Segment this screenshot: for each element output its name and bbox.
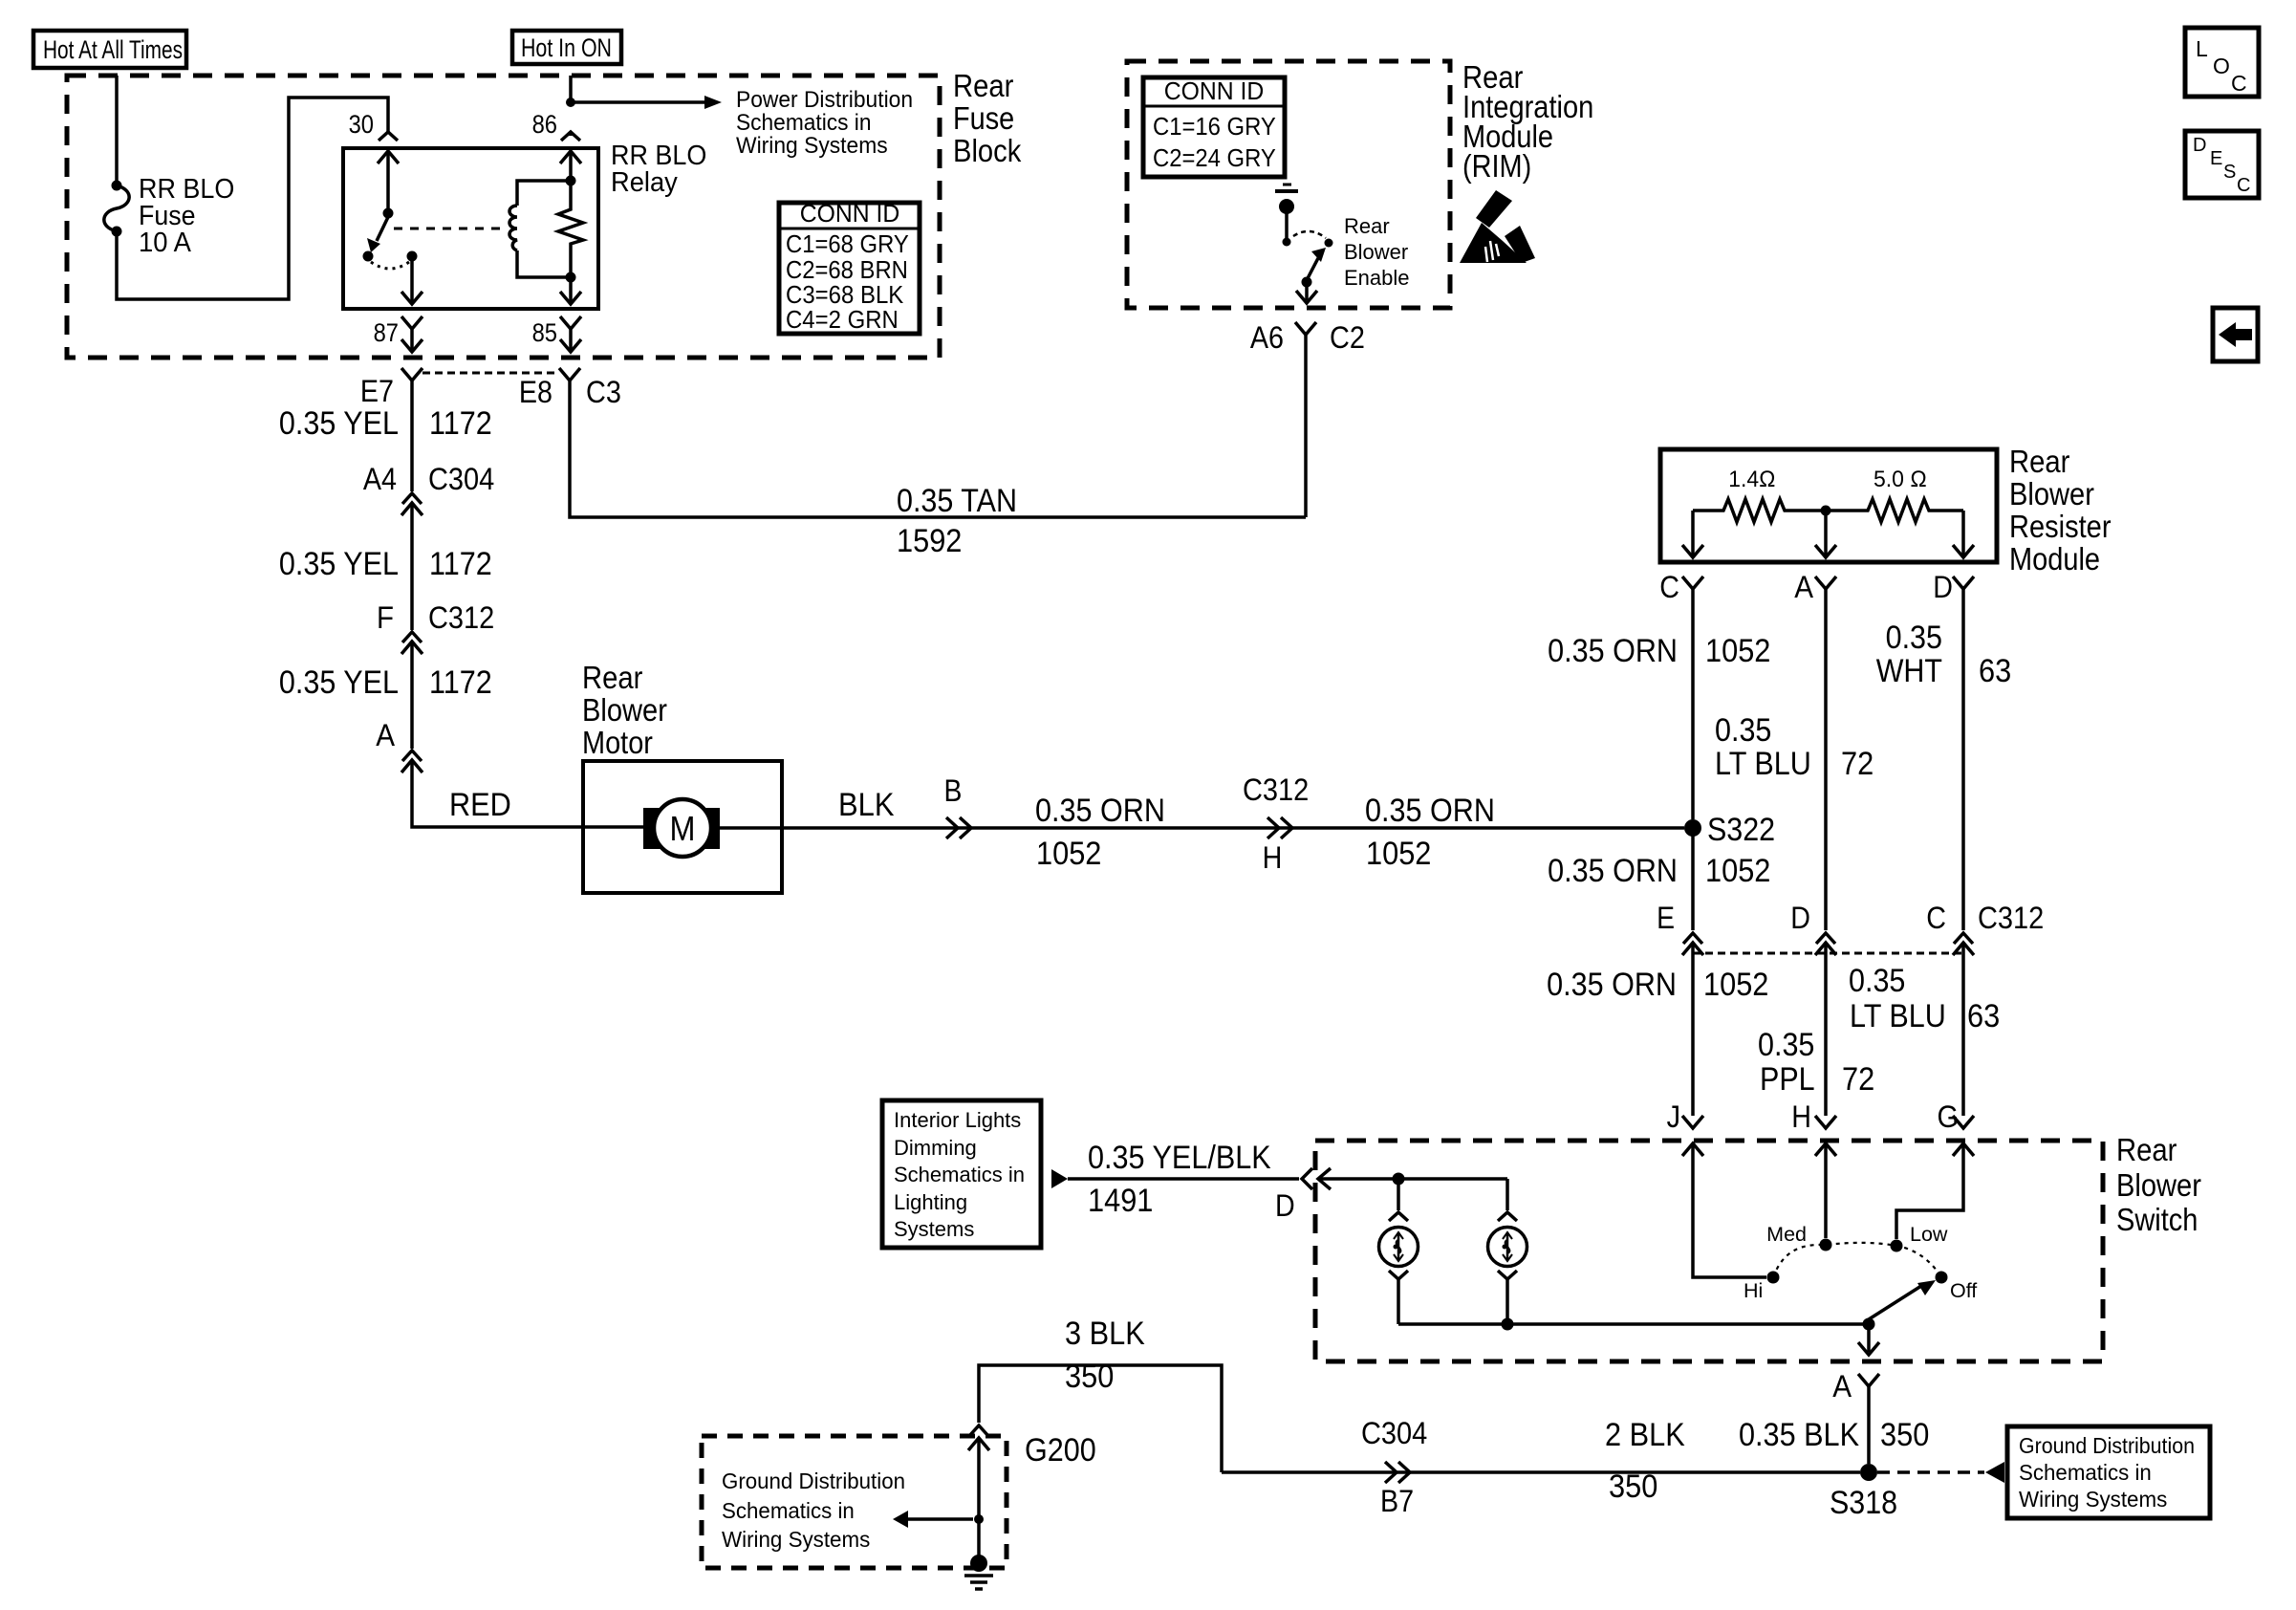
svg-text:1.4Ω: 1.4Ω — [1728, 467, 1775, 492]
svg-text:A4: A4 — [363, 462, 397, 496]
svg-text:A6: A6 — [1250, 320, 1284, 355]
connector A6 C2 — [1250, 320, 1365, 517]
svg-text:Blower: Blower — [582, 692, 667, 728]
label: 0.35 ORN 1052 (pin C) — [1548, 633, 1770, 669]
svg-text:Enable: Enable — [1344, 266, 1410, 290]
svg-text:86: 86 — [532, 110, 557, 139]
svg-text:Schematics in: Schematics in — [722, 1498, 855, 1523]
power label box: Hot In ON — [512, 31, 621, 64]
wire J to Hi — [1693, 1143, 1766, 1277]
svg-text:72: 72 — [1841, 746, 1874, 782]
svg-text:C312: C312 — [1243, 772, 1309, 807]
svg-text:0.35 ORN: 0.35 ORN — [1548, 633, 1678, 669]
connector pins C A D — [1659, 570, 1974, 604]
switch contact Off — [1936, 1272, 1978, 1303]
svg-text:Wiring Systems: Wiring Systems — [2019, 1487, 2167, 1512]
wire 3 BLK 350 — [979, 1365, 1222, 1472]
arrow to ground schematics — [893, 1511, 973, 1528]
label: 0.35 YEL 1172 (2) — [279, 546, 492, 582]
wire E7 down — [410, 381, 414, 491]
splice S318 — [1830, 1464, 1897, 1521]
svg-text:Rear: Rear — [1344, 214, 1390, 238]
RIM CONN ID table — [1143, 76, 1285, 177]
svg-text:Rear: Rear — [953, 68, 1013, 103]
svg-text:RED: RED — [449, 787, 511, 823]
Rear Blower Switch dashed enclosure — [1315, 1141, 2103, 1361]
ground symbol G200 — [964, 1555, 993, 1589]
svg-text:1491: 1491 — [1088, 1183, 1153, 1219]
svg-text:L: L — [2196, 36, 2208, 61]
switch output arrow — [1858, 1324, 1879, 1355]
svg-text:Blower: Blower — [1344, 240, 1408, 264]
svg-text:D: D — [2193, 135, 2206, 156]
relay contact dotted arc — [371, 262, 409, 269]
relay pin 87 — [374, 261, 422, 352]
wire D into switch box — [1318, 1168, 1507, 1189]
svg-text:H: H — [1791, 1099, 1811, 1134]
ESD sensitive symbol — [1460, 190, 1535, 263]
svg-text:C1=16 GRY: C1=16 GRY — [1153, 112, 1276, 141]
label: 0.35 ORN 1052 (to J) — [1547, 967, 1768, 1003]
svg-text:C4=2 GRN: C4=2 GRN — [786, 305, 899, 334]
svg-text:Hi: Hi — [1744, 1279, 1763, 1302]
component name: Rear Blower Motor — [582, 660, 667, 760]
component name: Rear Blower Resister Module — [2009, 444, 2112, 577]
svg-text:D: D — [1275, 1188, 1295, 1223]
svg-text:C1=68 GRY: C1=68 GRY — [786, 229, 909, 258]
svg-text:350: 350 — [1065, 1359, 1114, 1395]
svg-text:B: B — [944, 773, 963, 808]
svg-text:Switch: Switch — [2116, 1202, 2198, 1237]
svg-text:BLK: BLK — [838, 787, 895, 823]
svg-text:Rear: Rear — [582, 660, 642, 695]
wire motor to S322 — [720, 826, 1684, 830]
svg-text:0.35 ORN: 0.35 ORN — [1035, 793, 1165, 829]
svg-text:Lighting: Lighting — [894, 1190, 967, 1214]
svg-text:C3: C3 — [586, 375, 621, 409]
svg-text:3 BLK: 3 BLK — [1065, 1316, 1145, 1352]
svg-text:D: D — [1933, 570, 1953, 604]
wire S322 down — [1691, 828, 1695, 930]
arrow to ground distribution (right) — [1985, 1462, 2004, 1483]
svg-text:C2: C2 — [1330, 320, 1365, 355]
svg-text:Blower: Blower — [2116, 1167, 2201, 1203]
svg-text:0.35 YEL: 0.35 YEL — [279, 664, 399, 701]
connector A4 C304 — [363, 462, 494, 630]
wire into motor — [583, 825, 643, 829]
svg-text:87: 87 — [374, 318, 399, 347]
svg-text:Block: Block — [953, 133, 1022, 168]
svg-text:Hot In ON: Hot In ON — [521, 33, 612, 62]
wire from fuse to relay pin 30 — [117, 98, 388, 299]
svg-text:1172: 1172 — [429, 546, 492, 582]
svg-text:F: F — [377, 600, 394, 635]
switch contact Med — [1766, 1223, 1831, 1251]
label: 0.35 YEL 1172 (3) — [279, 664, 492, 701]
svg-text:0.35 YEL/BLK: 0.35 YEL/BLK — [1088, 1140, 1271, 1176]
svg-text:Wiring Systems: Wiring Systems — [722, 1527, 870, 1552]
wire E8 to RIM (0.35 TAN 1592) — [570, 381, 1306, 559]
svg-text:Wiring Systems: Wiring Systems — [736, 133, 888, 159]
label: Ground Distribution Schematics in Wiring Systems (G200) — [722, 1469, 905, 1552]
lamp 1 (illumination) — [1379, 1179, 1419, 1324]
svg-text:C: C — [2237, 175, 2250, 196]
connector C312 H — [1243, 772, 1309, 875]
switch contact Low — [1891, 1223, 1948, 1252]
svg-text:350: 350 — [1609, 1469, 1657, 1505]
svg-text:O: O — [2213, 54, 2230, 78]
wire to connector D — [1068, 1177, 1299, 1181]
label: 3 BLK 350 — [1065, 1316, 1145, 1395]
RIM internal supply symbol — [1275, 185, 1298, 247]
svg-text:1052: 1052 — [1366, 836, 1431, 872]
svg-text:0.35 ORN: 0.35 ORN — [1548, 853, 1678, 889]
switch rotary dotted arc — [1773, 1243, 1941, 1277]
svg-text:C312: C312 — [428, 600, 494, 635]
RIM dashed enclosure — [1127, 61, 1450, 308]
svg-text:C312: C312 — [1978, 901, 2044, 935]
DESC box — [2185, 131, 2259, 198]
svg-text:(RIM): (RIM) — [1462, 148, 1531, 184]
svg-text:D: D — [1790, 901, 1810, 935]
svg-text:1172: 1172 — [429, 664, 492, 701]
wire pin A down — [1824, 589, 1828, 930]
svg-text:M: M — [670, 809, 696, 848]
svg-text:C304: C304 — [428, 462, 494, 496]
rear blower enable switch dashed arc — [1293, 231, 1326, 238]
relay mechanical dashed link — [394, 228, 505, 230]
svg-text:CONN ID: CONN ID — [800, 199, 900, 228]
label: 0.35 ORN 1052 (H) — [1365, 793, 1495, 872]
svg-text:CONN ID: CONN ID — [1164, 76, 1265, 105]
svg-text:C: C — [1926, 901, 1946, 935]
dotted link C312 row — [1693, 952, 1963, 955]
wire G to Low — [1896, 1143, 1963, 1239]
wire C to switch G — [1961, 943, 1965, 1116]
svg-text:1592: 1592 — [897, 523, 962, 559]
svg-text:0.35 YEL: 0.35 YEL — [279, 405, 399, 442]
connector E8 C3 — [519, 368, 621, 409]
svg-text:Low: Low — [1910, 1223, 1948, 1246]
label: 0.35 WHT 63 — [1876, 620, 2012, 689]
wire: Hot In ON feed — [566, 76, 575, 107]
svg-text:C: C — [2231, 71, 2247, 96]
svg-text:0.35: 0.35 — [1849, 963, 1905, 999]
connector B — [944, 773, 971, 838]
svg-text:Hot At All Times: Hot At All Times — [43, 35, 183, 64]
dashed wire S318 to ground distribution — [1877, 1470, 1984, 1474]
relay pin 85 — [532, 282, 581, 352]
label: 0.35 YEL 1172 (1) — [279, 405, 492, 442]
arrow from Interior Lights box — [1051, 1169, 1068, 1188]
svg-text:C304: C304 — [1361, 1416, 1427, 1450]
switch blade to Off — [1863, 1280, 1937, 1331]
svg-text:0.35: 0.35 — [1886, 620, 1942, 656]
svg-text:72: 72 — [1842, 1061, 1874, 1098]
G200 ground dashed box — [702, 1436, 1007, 1568]
splice S322 — [1684, 812, 1775, 848]
svg-text:A: A — [376, 718, 395, 752]
svg-text:1052: 1052 — [1703, 967, 1768, 1003]
label: 0.35 YEL/BLK 1491 — [1088, 1140, 1271, 1219]
svg-text:C2=24 GRY: C2=24 GRY — [1153, 143, 1276, 172]
svg-text:LT BLU: LT BLU — [1850, 998, 1946, 1034]
svg-text:LT BLU: LT BLU — [1715, 746, 1811, 782]
svg-text:G200: G200 — [1025, 1432, 1096, 1469]
svg-text:0.35: 0.35 — [1758, 1027, 1814, 1063]
power label box: Hot At All Times — [33, 31, 186, 68]
Interior Lights Dimming box — [882, 1100, 1041, 1248]
switch contact Hi — [1744, 1272, 1780, 1303]
svg-text:A: A — [1794, 570, 1813, 604]
svg-text:85: 85 — [532, 318, 557, 347]
svg-text:S: S — [2223, 162, 2236, 183]
Rear Blower Resister Module box — [1660, 449, 1997, 562]
svg-text:E: E — [1657, 901, 1675, 935]
resistor module pin A drop — [1815, 515, 1836, 557]
rear blower enable switch blade — [1302, 248, 1327, 288]
wire switch A to S318 — [1867, 1386, 1871, 1464]
rear blower enable switch contact dot — [1325, 239, 1333, 248]
svg-text:1172: 1172 — [429, 405, 492, 442]
relay switch arm from pin 30 — [367, 151, 399, 252]
component name: RR BLO Relay — [611, 141, 706, 198]
component name: Rear Integration Module (RIM) — [1462, 59, 1593, 184]
label: Rear Blower Enable — [1344, 214, 1410, 290]
wire from Hot At All Times to fuse — [115, 76, 119, 184]
svg-text:10 A: 10 A — [139, 228, 192, 258]
svg-text:0.35 BLK: 0.35 BLK — [1739, 1417, 1859, 1453]
wire pin C down to S322 — [1691, 589, 1695, 819]
wire to Power Distribution — [571, 96, 722, 109]
svg-text:H: H — [1263, 840, 1283, 875]
svg-text:WHT: WHT — [1876, 653, 1942, 689]
svg-text:E7: E7 — [360, 374, 394, 408]
svg-text:2 BLK: 2 BLK — [1605, 1417, 1685, 1453]
svg-text:Ground Distribution: Ground Distribution — [2019, 1433, 2195, 1458]
svg-text:J: J — [1667, 1099, 1680, 1134]
relay resistor — [558, 181, 583, 277]
svg-text:1052: 1052 — [1705, 633, 1770, 669]
component name: Rear Fuse Block — [953, 68, 1022, 168]
svg-text:0.35 ORN: 0.35 ORN — [1547, 967, 1677, 1003]
resistor module pin C drop — [1682, 511, 1703, 557]
svg-text:Power Distribution: Power Distribution — [736, 87, 913, 113]
svg-text:PPL: PPL — [1760, 1061, 1815, 1098]
lamp 2 (illumination) — [1488, 1179, 1527, 1324]
svg-text:0.35 ORN: 0.35 ORN — [1365, 793, 1495, 829]
svg-text:E8: E8 — [519, 375, 552, 409]
label: 2 BLK 350 — [1605, 1417, 1685, 1505]
svg-text:B7: B7 — [1380, 1484, 1414, 1518]
label: RR BLO Fuse 10 A — [139, 174, 234, 258]
connector G200 — [968, 1425, 1096, 1469]
connector E7 — [360, 368, 422, 408]
svg-text:Dimming: Dimming — [894, 1136, 977, 1160]
svg-text:Ground Distribution: Ground Distribution — [722, 1469, 905, 1493]
svg-text:Rear: Rear — [2009, 444, 2069, 479]
svg-text:Resister: Resister — [2009, 509, 2112, 544]
svg-text:63: 63 — [1979, 653, 2011, 689]
connector D — [1275, 1168, 1312, 1223]
LOC box — [2185, 28, 2259, 97]
wire H to Med — [1824, 1143, 1828, 1238]
relay contact dots — [363, 251, 418, 262]
resistor 5.0 ohm — [1826, 467, 1963, 522]
resistor module junction dot — [1821, 506, 1831, 516]
svg-text:Blower: Blower — [2009, 476, 2094, 511]
back-arrow box — [2213, 308, 2258, 361]
wire D to switch H — [1824, 943, 1828, 1116]
label: Power Distribution Schematics in Wiring Systems — [736, 87, 913, 159]
connector G — [1938, 1099, 1975, 1156]
fuse block CONN ID table — [779, 199, 920, 334]
svg-text:S318: S318 — [1830, 1485, 1897, 1521]
component name: Rear Blower Switch — [2116, 1132, 2201, 1237]
label: 0.35 ORN 1052 (below S322) — [1548, 853, 1770, 889]
svg-text:C: C — [1659, 570, 1679, 604]
svg-text:63: 63 — [1967, 998, 2000, 1034]
svg-text:1052: 1052 — [1036, 836, 1101, 872]
svg-text:Off: Off — [1950, 1279, 1977, 1302]
relay coil — [509, 176, 576, 283]
svg-text:Interior Lights: Interior Lights — [894, 1108, 1021, 1132]
svg-text:Fuse: Fuse — [953, 100, 1014, 136]
svg-text:A: A — [1832, 1369, 1852, 1403]
junction dot on G200 lead — [974, 1514, 984, 1524]
resistor 1.4 ohm — [1693, 467, 1826, 522]
label: 0.35 LT BLU 72 — [1715, 712, 1874, 782]
switch common wire — [1398, 1322, 1869, 1326]
svg-text:Motor: Motor — [582, 725, 653, 760]
lamp 2 bottom junction — [1502, 1318, 1514, 1331]
wire E to switch J — [1691, 943, 1695, 1116]
relay pin 86 connector — [532, 110, 581, 178]
Rear Fuse Block dashed enclosure — [67, 76, 940, 358]
svg-text:5.0 Ω: 5.0 Ω — [1874, 467, 1927, 492]
wire 2 BLK 350 — [1222, 1470, 1860, 1474]
connector F C312 — [377, 600, 494, 749]
svg-text:E: E — [2210, 148, 2222, 169]
svg-text:0.35 YEL: 0.35 YEL — [279, 546, 399, 582]
svg-text:30: 30 — [349, 110, 374, 139]
label: 0.35 PPL 72 (to H) — [1758, 1027, 1874, 1098]
svg-text:S322: S322 — [1707, 812, 1775, 848]
connector A (blower motor) — [376, 718, 583, 827]
label: BLK — [838, 787, 895, 823]
RR BLO Relay box — [343, 148, 598, 309]
Ground Distribution box (right) — [2007, 1426, 2210, 1518]
svg-text:Relay: Relay — [611, 167, 678, 198]
label: 0.35 BLK 350 — [1739, 1417, 1929, 1453]
RIM output wire with arrow — [1296, 282, 1317, 303]
svg-text:Med: Med — [1766, 1223, 1807, 1246]
label: 0.35 ORN 1052 (B) — [1035, 793, 1165, 872]
label: 0.35 LT BLU 63 (to G) — [1849, 963, 2000, 1034]
wire G200 to ground — [977, 1438, 981, 1556]
svg-text:0.35 TAN: 0.35 TAN — [897, 483, 1017, 519]
svg-text:Schematics in: Schematics in — [736, 110, 872, 136]
connector H — [1791, 1099, 1836, 1156]
svg-text:Systems: Systems — [894, 1217, 974, 1241]
wire pin D down — [1961, 589, 1965, 930]
connector C304 B7 — [1361, 1416, 1427, 1518]
in-line connector C312 row E D C — [1657, 901, 2044, 955]
svg-text:1052: 1052 — [1705, 853, 1770, 889]
svg-text:0.35: 0.35 — [1715, 712, 1771, 749]
fuse RR BLO 10A — [104, 181, 129, 237]
svg-text:Schematics in: Schematics in — [894, 1163, 1025, 1186]
connector A (switch) — [1832, 1369, 1879, 1403]
svg-text:350: 350 — [1880, 1417, 1929, 1453]
svg-text:Rear: Rear — [2116, 1132, 2177, 1167]
lamp 1 top junction — [1393, 1173, 1405, 1186]
connector J — [1667, 1099, 1703, 1156]
Rear Blower Motor box — [583, 761, 782, 893]
svg-text:Schematics in: Schematics in — [2019, 1460, 2152, 1485]
svg-text:Module: Module — [2009, 541, 2100, 577]
resistor module pin D drop — [1953, 511, 1974, 557]
motor symbol M — [643, 799, 720, 857]
relay pin 30 connector — [349, 110, 398, 141]
in-line connector dotted link E7-E8 — [422, 372, 558, 375]
label: RED — [449, 787, 511, 823]
